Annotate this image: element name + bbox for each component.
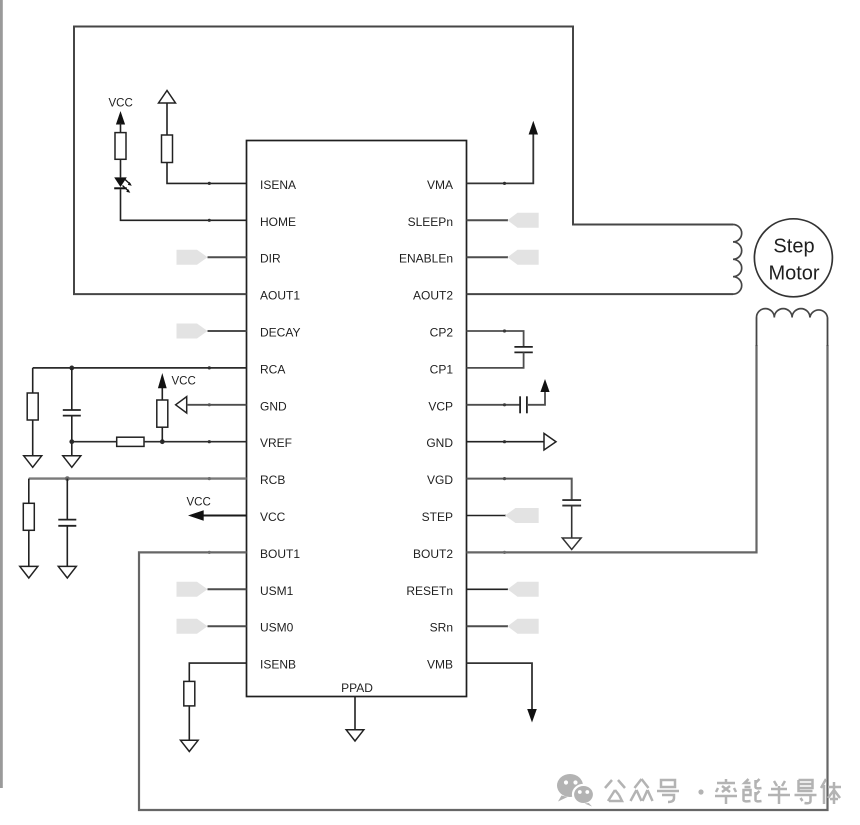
svg-text:BOUT1: BOUT1 (260, 547, 300, 561)
arrow VCC pin left (188, 510, 204, 520)
wire R7 to ground (188, 706, 190, 740)
svg-text:Motor: Motor (768, 263, 819, 285)
input flag SLEEPn (508, 213, 539, 228)
svg-text:CP1: CP1 (430, 362, 454, 376)
wire STEP (467, 515, 507, 517)
svg-text:VMB: VMB (427, 658, 453, 672)
wire USM0 (208, 625, 247, 627)
wire GND output (467, 441, 545, 443)
capacitor C5 top wire (66, 479, 68, 520)
wire SRn (467, 625, 509, 627)
watermark wechat icon (557, 774, 594, 807)
wire RESETn (467, 588, 509, 590)
svg-text:VREF: VREF (260, 436, 292, 450)
svg-text:VCP: VCP (428, 399, 453, 413)
wire winding B right stub (827, 318, 829, 347)
wire VCP to arrow (527, 391, 545, 405)
wire R3 to ground (32, 420, 34, 456)
connection dots (faint) (208, 182, 506, 554)
wire C3 to ground (571, 506, 573, 538)
svg-text:SLEEPn: SLEEPn (408, 215, 453, 229)
svg-text:BOUT2: BOUT2 (413, 547, 453, 561)
wire ENABLEn (467, 256, 509, 258)
power arrow VCC top-left (116, 111, 125, 125)
junction dot RCB (65, 476, 70, 481)
char 半 (768, 781, 790, 804)
input flag SRn (508, 619, 539, 634)
wire AOUT1 net top loop (74, 27, 733, 295)
char 率 (715, 779, 737, 804)
arrow VMB down (527, 709, 537, 723)
svg-text:USM1: USM1 (260, 584, 294, 598)
svg-text:VMA: VMA (427, 178, 453, 192)
wire VMB net (467, 663, 533, 709)
svg-text:CP2: CP2 (430, 326, 454, 340)
junction dot VREF-C4 (69, 439, 74, 444)
wire AOUT2 net (467, 293, 734, 295)
net arrow ISENA pullup (open triangle up) (159, 91, 176, 104)
svg-text:USM0: USM0 (260, 621, 294, 635)
wire USM1 (208, 588, 247, 590)
ground under R7 (181, 740, 199, 751)
wire DIR (208, 256, 247, 258)
wire C4 to ground (71, 416, 73, 456)
svg-text:VCC: VCC (172, 376, 196, 388)
capacitor C5 plates (58, 519, 76, 521)
ground under C4 (63, 456, 81, 468)
wire ISENA net (167, 163, 247, 184)
net arrow GND right (open) (544, 433, 556, 450)
svg-text:VCC: VCC (187, 497, 211, 509)
inductor motor winding A (vertical coil) (733, 225, 742, 295)
char 导 (795, 780, 817, 803)
wire CP2 / capacitor C1 loop (467, 331, 524, 347)
ground under PPAD (346, 730, 364, 741)
wire VCC to R1 (120, 123, 122, 133)
wire PPAD (354, 697, 356, 730)
char 公 (605, 780, 625, 801)
svg-text:RCA: RCA (260, 362, 285, 376)
ground under R6 (20, 566, 38, 578)
input flag DECAY (177, 324, 208, 339)
wire GND pin (187, 404, 247, 406)
wire BOUT2 net (467, 345, 757, 552)
svg-text:VCC: VCC (109, 98, 133, 110)
wire R5 bottom (161, 427, 163, 442)
svg-text:SRn: SRn (430, 621, 453, 635)
capacitor C4 top wire (71, 368, 73, 410)
motor M1 circle (754, 219, 832, 297)
input flag USM0 (177, 619, 208, 634)
resistor R1 (LED) (115, 133, 126, 160)
capacitor C3 plates (562, 499, 581, 501)
svg-text:VGD: VGD (427, 473, 453, 487)
wire RCB net (29, 477, 247, 479)
watermark text 公众号·率能半导体 (605, 779, 841, 804)
svg-text:VCC: VCC (260, 510, 286, 524)
resistor R6 (RCB) (23, 503, 34, 530)
wire VCP (467, 404, 521, 406)
wire R6 to ground (28, 530, 30, 566)
wire SLEEPn (467, 219, 509, 221)
wire HOME net (121, 189, 247, 220)
wire CP1 (467, 352, 524, 368)
resistor R7 (ISENB) (184, 681, 195, 706)
svg-text:AOUT2: AOUT2 (413, 289, 453, 303)
input flag RESETn (508, 582, 539, 597)
input flag STEP (505, 508, 539, 523)
power arrow VMA (529, 121, 538, 135)
junction dot VREF-R5 (160, 439, 165, 444)
LED D1 (114, 177, 132, 192)
power arrow VCP (540, 379, 549, 392)
svg-text:RCB: RCB (260, 473, 285, 487)
motor M1 label (768, 236, 819, 285)
resistor R5 (VCC pullup) (157, 400, 168, 427)
input flag DIR (177, 250, 208, 265)
resistor R3 (RCA) (27, 393, 38, 420)
capacitor C2 plates (519, 396, 521, 413)
wire BOUT1 net loop (139, 345, 828, 810)
IC pin labels right (399, 178, 453, 672)
power arrow VCC mid (158, 373, 167, 388)
wire VREF net right (144, 441, 247, 443)
svg-text:ISENB: ISENB (260, 658, 296, 672)
svg-text:ENABLEn: ENABLEn (399, 252, 453, 266)
IC pin labels left (260, 178, 300, 672)
wire C5 to ground (66, 526, 68, 567)
wire RCB to R6 (28, 479, 30, 504)
wire RCA net (33, 367, 247, 369)
svg-text:Step: Step (773, 236, 814, 258)
wire VMA net (467, 134, 534, 184)
IC U1 body (247, 141, 467, 697)
ground under R3 (24, 456, 42, 468)
svg-text:GND: GND (260, 399, 287, 413)
wire VREF net left (72, 441, 117, 443)
svg-text:DECAY: DECAY (260, 326, 300, 340)
capacitor C4 plates (63, 409, 81, 411)
char 号 (657, 780, 679, 802)
wire RCA to R3 (32, 368, 34, 393)
char 体 (821, 779, 841, 804)
separator dot (698, 789, 703, 794)
inductor motor winding B (horizontal coil) (757, 309, 828, 318)
svg-text:ISENA: ISENA (260, 178, 296, 192)
svg-text:STEP: STEP (422, 510, 453, 524)
ground under C5 (58, 566, 76, 578)
wire ISENA pullup top (166, 103, 168, 135)
wire DECAY (208, 330, 247, 332)
wire ISENB net (189, 663, 246, 681)
ground under C3 (562, 538, 581, 550)
gnd input connector GND pin (open triangle left) (176, 397, 187, 413)
svg-text:RESETn: RESETn (406, 584, 453, 598)
svg-text:DIR: DIR (260, 252, 281, 266)
input flag ENABLEn (508, 250, 539, 265)
wire R5 top (161, 387, 163, 400)
capacitor C1 plates (514, 346, 532, 348)
svg-text:GND: GND (426, 436, 453, 450)
svg-text:HOME: HOME (260, 215, 296, 229)
input flag USM1 (177, 582, 208, 597)
resistor R2 (ISENA) (162, 135, 173, 163)
char 众 (631, 779, 653, 801)
wire VGD net (467, 479, 572, 501)
svg-text:PPAD: PPAD (341, 681, 373, 695)
wire winding B left stub (756, 318, 758, 347)
junction dot RCA (69, 366, 74, 371)
wire R1 to LED (120, 159, 122, 177)
svg-text:AOUT1: AOUT1 (260, 289, 300, 303)
wire VCC pin (202, 515, 247, 517)
char 能 (744, 779, 762, 801)
resistor R4 (VREF series) (117, 437, 144, 446)
